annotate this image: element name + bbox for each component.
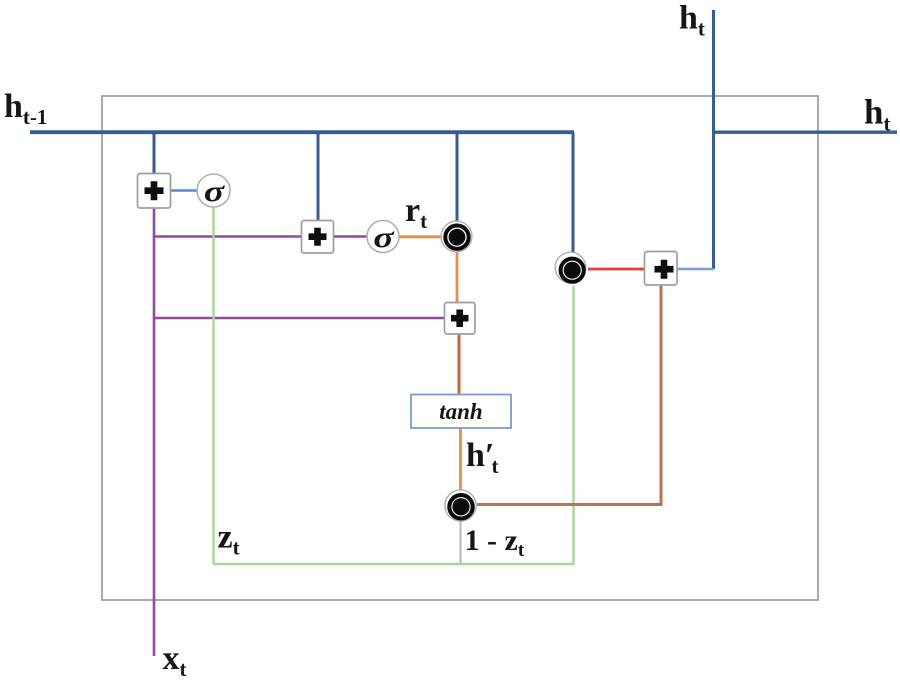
wire green bottom horizontal [214, 563, 575, 565]
svg-text:σ: σ [204, 175, 226, 208]
wire brown vertical from plus4 [477, 286, 661, 505]
svg-text:tanh: tanh [439, 399, 482, 424]
wire x(t) purple vertical [153, 207, 156, 656]
wire red right multiplier to plus4 [588, 268, 645, 271]
wire orange r_t multiplier down to candidate plus [456, 252, 459, 303]
wire h(t) output horizontal right [712, 130, 897, 133]
wire light-blue connector plus1 to sigma1 [170, 189, 198, 192]
operator plus U8 (candidate input sum) [445, 303, 476, 335]
wire green vertical from right multiplier [572, 286, 574, 564]
wire h(t-1) main horizontal bus [30, 130, 574, 134]
operator plus U1 (update gate input sum) [138, 174, 171, 209]
multiplier U6 (right elementwise product) [555, 252, 586, 283]
wire purple connector plus2 to sigma2 [333, 235, 367, 238]
multiplier U5 (r_t elementwise product) [441, 221, 472, 252]
wire purple horizontal to candidate plus [154, 317, 445, 320]
wire z(t) green vertical from sigma1 [212, 207, 214, 564]
wire branch to right multiplier (x=573) [572, 133, 575, 256]
svg-text:σ: σ [373, 221, 395, 254]
cell boundary box [102, 96, 818, 600]
wire orange sigma2 to r_t multiplier [399, 235, 442, 238]
svg-text:1 - zt: 1 - zt [465, 524, 525, 561]
tanh activation box [411, 395, 511, 429]
sigma U2 (update gate sigmoid) [197, 174, 230, 208]
wire branch to update-gate plus (x=154) [153, 133, 156, 175]
multiplier U9 (h'_t elementwise product) [445, 490, 476, 521]
sigma U4 (reset gate sigmoid) [367, 221, 399, 255]
wire branch to reset-gate plus (x=318) [317, 133, 320, 222]
wire light-blue connector plus4 to h(t) vertical [677, 268, 714, 271]
wire gray (1-z_t) below multiplier [460, 520, 462, 564]
wire branch to r_t multiplier (x=457) [456, 133, 459, 223]
wire orange tanh to h'_t multiplier [459, 428, 462, 492]
svg-text:h′t: h′t [466, 437, 498, 478]
operator plus U3 (reset gate input sum) [302, 221, 334, 254]
wire brown candidate plus to tanh [458, 334, 461, 395]
operator plus U7 (output sum) [645, 252, 678, 286]
wire purple horizontal to reset-gate plus [154, 235, 302, 238]
wire h(t) output vertical [712, 10, 715, 269]
